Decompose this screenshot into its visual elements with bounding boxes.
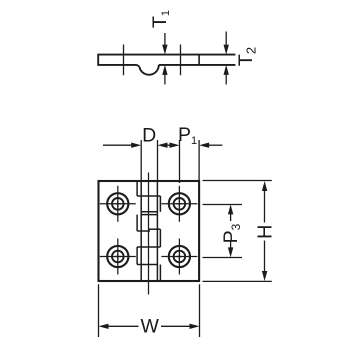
knuckle strip left line — [140, 181, 142, 281]
hole top-left inner circle — [112, 198, 124, 210]
dimension P1 extension line left — [179, 140, 181, 183]
hole bottom-right inner circle — [174, 251, 186, 263]
knuckle right outer step 1 — [159, 196, 161, 212]
dimension W extension right — [199, 284, 201, 337]
dimension H extension bottom — [203, 280, 272, 282]
svg-text:D: D — [142, 125, 156, 147]
hole top-right inner circle — [174, 198, 186, 210]
hole bottom-left centermark — [100, 239, 136, 275]
svg-text:T1: T1 — [149, 10, 172, 28]
side view plate left end — [97, 54, 99, 66]
dimension W extension left — [98, 284, 100, 337]
dimension D left tail and arrow — [103, 143, 141, 148]
pin center line — [148, 173, 150, 295]
knuckle divider 3a — [148, 228, 160, 230]
side view plate top edge — [98, 54, 235, 56]
knuckle right outer step 2 — [159, 229, 161, 247]
hole bottom-left inner circle — [112, 251, 124, 263]
dimension P3 line lower with arrow — [228, 241, 233, 257]
dimension P3 extension top — [203, 204, 243, 206]
dimension T2 upper arrow — [224, 32, 229, 55]
dimension T2 lower arrow — [224, 65, 229, 85]
dimension P1 right tail and arrow — [199, 143, 222, 148]
svg-text:W: W — [140, 315, 159, 337]
svg-text:T2: T2 — [235, 47, 259, 66]
knuckle left outer step 3 — [136, 247, 138, 265]
hole bottom-left small cross — [115, 253, 121, 259]
svg-text:P3: P3 — [220, 223, 243, 243]
knuckle divider 3b — [137, 230, 150, 232]
hole top-right small cross — [176, 201, 182, 207]
dimension D right arrow / P1 left arrow pair — [158, 143, 180, 148]
side view plate bottom edge right — [159, 64, 236, 66]
hole bottom-right outer circle — [169, 246, 190, 267]
knuckle semicircle — [136, 65, 159, 75]
dimension H extension top — [203, 180, 272, 182]
knuckle left outer step 2 — [136, 215, 138, 231]
knuckle divider 5 — [137, 264, 157, 266]
side view plate bottom edge left — [98, 64, 136, 66]
dimension D extension line right — [157, 140, 159, 181]
hole bottom-left outer circle — [107, 246, 128, 267]
knuckle divider 2b — [141, 214, 157, 216]
hole top-right outer circle — [169, 193, 190, 214]
dimension D extension line left — [140, 140, 142, 181]
dimension W line left with arrow — [99, 324, 139, 329]
knuckle divider 2a — [141, 211, 157, 213]
dimension H line lower with arrow — [262, 241, 267, 282]
dimension W line right with arrow — [161, 324, 200, 329]
svg-text:H: H — [255, 224, 277, 238]
hole top-left centermark — [100, 186, 136, 222]
knuckle divider 4 — [137, 246, 160, 248]
knuckle divider 1 — [137, 195, 160, 197]
knuckle left outer step 1 — [136, 181, 138, 196]
hole bottom-right small cross — [176, 253, 182, 259]
side view leaf divider line — [198, 55, 200, 65]
dimension P3 extension bottom — [203, 257, 243, 259]
dimension P3 line upper with arrow — [228, 204, 233, 221]
side view hole centerline right — [180, 45, 182, 76]
dimension T1 lower arrow — [162, 65, 167, 85]
dimension P1 extension line right — [198, 140, 200, 181]
side view hole centerline left — [123, 45, 125, 76]
knuckle right outer step 3 — [159, 265, 161, 282]
hole top-left outer circle — [107, 193, 128, 214]
svg-text:P1: P1 — [178, 124, 197, 147]
hole bottom-right centermark — [161, 239, 197, 275]
hole top-left small cross — [115, 201, 121, 207]
knuckle strip right line — [156, 181, 158, 281]
dimension T1 upper arrow — [162, 33, 167, 55]
hole top-right centermark — [161, 186, 197, 222]
dimension H line upper with arrow — [262, 181, 267, 223]
front view square plate outline — [99, 181, 200, 281]
